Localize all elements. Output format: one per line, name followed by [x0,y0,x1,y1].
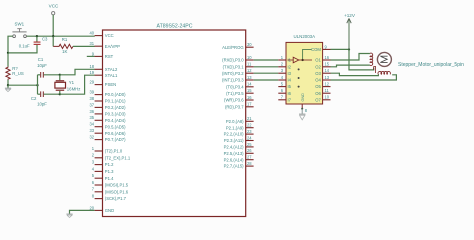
node R? bottom [7,84,9,86]
svg-text:16: 16 [247,95,252,100]
node +12V junction [348,48,350,50]
wire VCC rail to pin 40 [26,35,94,37]
ULN internal COM wire [303,49,312,60]
svg-text:(INT0),P3.2: (INT0),P3.2 [222,71,244,76]
pin 20 GND [89,205,114,213]
svg-text:XTAL2: XTAL2 [105,67,118,72]
pin 3 P1.2 [92,160,114,168]
svg-text:C3: C3 [42,37,48,42]
svg-text:P2.2,(A10): P2.2,(A10) [224,132,245,137]
svg-text:15: 15 [325,62,330,67]
svg-text:P0.3,(AD3): P0.3,(AD3) [105,112,126,117]
svg-text:10pF: 10pF [37,102,47,107]
wire O1 to motor coil A top [331,54,370,61]
svg-text:25: 25 [247,142,252,147]
crystal Y1 16MHz [55,75,81,94]
pin 3 I3 [278,68,291,76]
pin 31 EA/VPP [89,41,120,49]
pin 12 O5 [315,82,330,90]
svg-text:38: 38 [89,96,94,101]
svg-text:RST: RST [105,54,114,59]
svg-text:0.1uF: 0.1uF [19,43,30,48]
svg-text:P2.3,(A11): P2.3,(A11) [224,138,244,143]
svg-text:13: 13 [247,75,252,80]
pin 24 P2.3,(A11) [224,135,254,143]
pin 12 (INT0),P3.2 [222,68,254,76]
pin 14 O3 [315,68,330,76]
svg-text:(INT1),P3.3: (INT1),P3.3 [222,78,244,83]
pin 37 P0.2,(AD2) [89,102,126,110]
svg-text:13: 13 [325,75,330,80]
pin 21 P2.0,(A8) [226,116,254,124]
svg-text:14: 14 [247,82,252,87]
wire P3 to ULN input [254,79,279,81]
pin 15 O2 [315,62,330,70]
svg-text:SW1: SW1 [15,21,25,26]
svg-text:ULN2003A: ULN2003A [294,34,316,39]
svg-text:EA/VPP: EA/VPP [105,44,120,49]
svg-text:(SCK),P1.7: (SCK),P1.7 [105,196,127,201]
svg-text:21: 21 [247,116,252,121]
svg-text:P2.6,(A14): P2.6,(A14) [224,157,245,162]
svg-text:AT89S52-24PC: AT89S52-24PC [157,24,193,30]
svg-text:29: 29 [89,80,94,85]
svg-text:P0.2,(AD2): P0.2,(AD2) [105,105,126,110]
pin 29 PSEN [89,80,116,88]
svg-text:10pF: 10pF [37,63,47,68]
pin 35 P0.4,(AD4) [89,115,126,123]
wire RST pin 9 [87,55,95,57]
pin 27 P2.6,(A14) [224,155,254,163]
svg-text:ALE/PROG: ALE/PROG [222,45,243,50]
svg-text:(MISO),P1.6: (MISO),P1.6 [105,189,129,194]
svg-text:+12V: +12V [344,13,356,18]
wire +12V to motor common [349,49,374,70]
pin 16 O1 [315,55,330,63]
node VCC rail / R1 top [52,35,54,37]
svg-text:(WR),P3.6: (WR),P3.6 [224,98,244,103]
pin 6 (MOSI),P1.5 [92,180,129,188]
pin 10 O7 [315,95,330,103]
svg-text:23: 23 [247,129,252,134]
svg-text:19: 19 [89,70,94,75]
svg-text:VCC: VCC [49,4,59,9]
svg-text:P1.3: P1.3 [105,169,114,174]
svg-text:37: 37 [89,102,94,107]
resistor R? R_US [6,53,24,85]
pin 25 P2.4,(A12) [224,142,254,150]
svg-text:P1.2: P1.2 [105,162,114,167]
pin 15 (T1),P3.5 [226,88,253,96]
wire O3 to motor coil B left [331,73,379,75]
pin 13 (INT1),P3.3 [222,75,254,83]
wire COM to +12V node [331,48,350,50]
pin 19 XTAL1 [89,70,118,78]
svg-text:P2.0,(A8): P2.0,(A8) [226,119,244,124]
wire capacitor left rail [37,75,39,94]
svg-text:(T2_EX),P1.1: (T2_EX),P1.1 [105,155,131,160]
power symbol +12V [344,13,356,49]
capacitor C1 10pF [37,57,60,78]
node reset bottom rail left [7,52,9,54]
svg-text:P2.5,(A13): P2.5,(A13) [224,151,245,156]
pin 14 (T0),P3.4 [226,82,253,90]
wire O2 to motor coil A bottom [331,65,370,67]
ULN channel 1 driver symbol [288,57,313,63]
wire P3 to ULN input [254,72,279,74]
svg-text:10: 10 [247,55,252,60]
pin 18 XTAL2 [89,64,118,72]
svg-text:35: 35 [89,115,94,120]
pin 8 GND of ULN [301,93,308,113]
pin 26 P2.5,(A13) [224,148,254,156]
svg-text:(T2),P1.0: (T2),P1.0 [105,149,123,154]
svg-text:VCC: VCC [105,33,114,38]
svg-text:40: 40 [89,31,94,36]
svg-text:C2: C2 [31,96,37,101]
svg-text:C1: C1 [38,57,44,62]
svg-text:P2.7,(A15): P2.7,(A15) [224,164,245,169]
pin 39 P0.0,(AD0) [89,90,126,98]
svg-text:34: 34 [89,122,94,127]
svg-text:PSEN: PSEN [105,82,116,87]
wire P3 to ULN input [254,66,279,68]
svg-text:1K: 1K [62,49,67,54]
switch SW1 [12,21,26,37]
resistor R1 1K [53,36,73,54]
wire crystal bottom to XTAL1 pin 19 [60,75,95,94]
pin 34 P0.5,(AD5) [89,122,126,130]
IC U2 ULN2003A [286,34,323,104]
svg-text:P0.1,(AD1): P0.1,(AD1) [105,99,126,104]
svg-text:GND: GND [105,208,114,213]
svg-text:11: 11 [247,62,252,67]
ground symbol at MCU GND [66,214,72,217]
pin 9 COM [311,44,330,52]
node XTAL2 / crystal top [59,74,61,76]
pin 1 I1 [278,55,291,63]
capacitor C2 10pF [31,91,60,106]
svg-text:O3: O3 [315,71,321,76]
pin 30 ALE/PROG [222,42,253,50]
svg-text:10: 10 [325,95,330,100]
svg-text:(RD),P3.7: (RD),P3.7 [225,104,244,109]
power symbol VCC [49,4,59,37]
svg-text:COM: COM [311,47,321,52]
svg-text:R_US: R_US [12,71,24,76]
svg-text:39: 39 [89,90,94,95]
pin 4 I4 [278,75,291,83]
svg-text:(TXD),P3.1: (TXD),P3.1 [223,64,245,69]
pin 16 (WR),P3.6 [224,95,254,103]
node ULN GND [301,108,303,110]
pin 7 (MISO),P1.6 [92,187,129,195]
wire R? bottom to capacitor rail [8,84,38,86]
svg-text:31: 31 [89,41,94,46]
svg-text:15: 15 [247,88,252,93]
pin 13 O4 [315,75,330,83]
pin 2 (T2_EX),P1.1 [92,153,131,161]
pin 9 RST [92,51,114,59]
svg-text:Y1: Y1 [69,80,75,85]
pin 5 P1.4 [92,173,114,181]
pin 10 (RXD),P3.0 [222,55,253,63]
IC U1 AT89S52-24PC [103,24,246,217]
wire O4 to motor coil B right [331,75,397,80]
node ULN channel 1 [301,59,303,61]
svg-text:O7: O7 [315,97,321,102]
ULN ellipsis dots [298,68,300,87]
svg-text:30: 30 [247,42,252,47]
node capacitor rail [36,84,38,86]
svg-text:O5: O5 [315,84,321,89]
svg-text:24: 24 [247,135,252,140]
svg-text:22: 22 [247,123,252,128]
svg-text:18: 18 [89,64,94,69]
svg-text:20: 20 [89,205,94,210]
pin 6 I6 [278,88,291,96]
svg-text:XTAL1: XTAL1 [105,73,118,78]
svg-text:GND: GND [301,93,305,102]
svg-text:36: 36 [89,109,94,114]
pin 22 P2.1,(A9) [226,123,254,131]
node XTAL1 / crystal bottom [59,93,61,95]
svg-text:(T1),P3.5: (T1),P3.5 [226,91,244,96]
node VCC rail / C3 top [36,35,38,37]
pin 32 P0.7,(AD7) [89,135,126,143]
svg-text:P0.7,(AD7): P0.7,(AD7) [105,137,126,142]
wire P3 to ULN input [254,59,279,61]
svg-text:O2: O2 [315,64,321,69]
pin 5 I5 [278,82,291,90]
pin 28 P2.7,(A15) [224,161,254,169]
svg-text:12: 12 [247,68,252,73]
pin 23 P2.2,(A10) [224,129,254,137]
pin 40 VCC [89,31,113,39]
svg-text:14: 14 [325,68,330,73]
svg-text:R1: R1 [62,37,68,42]
svg-text:P1.4: P1.4 [105,176,114,181]
svg-text:O6: O6 [315,91,321,96]
svg-text:P2.4,(A12): P2.4,(A12) [224,145,245,150]
ground symbol at R? [5,85,11,91]
svg-text:(T0),P3.4: (T0),P3.4 [226,84,244,89]
svg-text:11: 11 [325,88,330,93]
svg-text:17: 17 [247,102,252,107]
pin 1 (T2),P1.0 [92,146,123,154]
svg-text:P2.1,(A9): P2.1,(A9) [226,125,244,130]
svg-text:O4: O4 [315,78,321,83]
pin 2 I2 [278,62,291,70]
pin 17 (RD),P3.7 [225,102,254,110]
pin 7 I7 [278,95,291,103]
pin 11 O6 [315,88,330,96]
svg-text:16: 16 [325,55,330,60]
pin 4 P1.3 [92,166,114,174]
svg-text:P0.6,(AD6): P0.6,(AD6) [105,131,126,136]
wire R1 to pin 31 EA/VPP [73,45,95,47]
svg-text:Stepper_Motor_unipolar_5pin: Stepper_Motor_unipolar_5pin [398,62,464,68]
svg-text:P0.4,(AD4): P0.4,(AD4) [105,118,126,123]
svg-text:12: 12 [325,82,330,87]
svg-text:(RXD),P3.0: (RXD),P3.0 [222,58,244,63]
wire SW1 left to bottom rail [8,36,13,53]
svg-text:(MOSI),P1.5: (MOSI),P1.5 [105,183,129,188]
motor M1 Stepper_Motor_unipolar_5pin [370,52,464,74]
pin 33 P0.6,(AD6) [89,128,126,136]
pin 38 P0.1,(AD1) [89,96,126,104]
pin 11 (TXD),P3.1 [223,62,254,70]
svg-text:O1: O1 [315,58,321,63]
svg-text:P0.0,(AD0): P0.0,(AD0) [105,92,126,97]
wire crystal top to XTAL2 pin 18 [60,69,95,75]
wire reset bottom rail to C3 bottom [8,45,37,53]
svg-text:26: 26 [247,148,252,153]
wire GND pin 20 to ground [70,210,95,214]
svg-text:16MHz: 16MHz [67,86,81,91]
svg-text:28: 28 [247,161,252,166]
svg-text:P0.5,(AD5): P0.5,(AD5) [105,124,126,129]
svg-text:33: 33 [89,128,94,133]
pin 8 (SCK),P1.7 [92,194,127,202]
ground symbol at ULN [299,109,305,120]
pin 36 P0.3,(AD3) [89,109,126,117]
svg-text:27: 27 [247,155,252,160]
capacitor C3 0.1uF [19,36,48,48]
svg-text:32: 32 [89,135,94,140]
